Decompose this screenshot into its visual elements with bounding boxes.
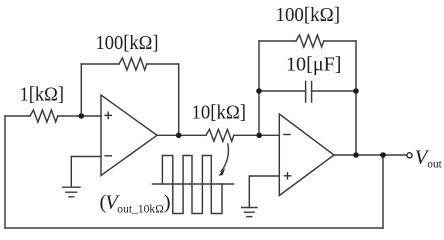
resistor R3 10[kOhm] (206, 129, 234, 141)
wire R3 to U2 minus (234, 134, 279, 136)
capacitor C1 plates (306, 82, 312, 103)
svg-text:10[μF]: 10[μF] (286, 54, 342, 76)
wire feedback top-left right segment (147, 63, 179, 65)
wire U2 plus input to ground (249, 176, 279, 208)
op-amp U2 minus sign (283, 134, 291, 136)
wire input segment (5, 115, 30, 117)
waveform square wave (162, 156, 222, 214)
wire feedback top-left left segment (81, 63, 119, 65)
wire capacitor left lead (259, 90, 306, 92)
op-amp U1 triangle (101, 95, 157, 176)
node F junction dot output 1 (353, 152, 359, 158)
resistor R2 100[kOhm] left feedback (119, 58, 147, 70)
waveform baseline (152, 183, 233, 185)
op-amp U2 plus sign (284, 172, 292, 180)
wire U2 output to terminal (334, 154, 407, 156)
node E junction dot cap right (353, 88, 359, 94)
svg-text:1[kΩ]: 1[kΩ] (20, 83, 65, 105)
wire feedback up from + node (80, 64, 82, 116)
wire feedback top-right right segment (324, 40, 356, 42)
node G junction dot output 2 (380, 152, 386, 158)
svg-text:): ) (164, 192, 171, 214)
wire R1 to opamp + (58, 115, 101, 117)
svg-text:100[kΩ]: 100[kΩ] (276, 4, 341, 26)
wire U1 output to R3 (157, 134, 206, 136)
wire output node down to bottom (382, 155, 384, 228)
wire bottom feedback (5, 227, 383, 229)
op-amp U1 plus sign (104, 112, 112, 120)
resistor R4 100[kOhm] right feedback (296, 35, 324, 47)
wire right feedback down (355, 41, 357, 155)
wire U1 minus input to ground (71, 157, 101, 188)
node C junction dot at U2 minus input (256, 133, 262, 139)
node D junction dot cap left (256, 88, 262, 94)
wire left border (4, 116, 6, 228)
svg-text:10[kΩ]: 10[kΩ] (192, 102, 247, 124)
node B junction dot at U1 output (176, 133, 182, 139)
terminal Vout open circle (407, 153, 412, 158)
wire feedback top-right left segment (259, 40, 296, 42)
svg-text:out_10kΩ: out_10kΩ (117, 204, 164, 216)
ground right (242, 208, 257, 217)
resistor R1 1[kOhm] (30, 110, 58, 122)
ground left (63, 187, 80, 197)
arrowhead (218, 168, 225, 176)
op-amp U1 minus sign (104, 155, 112, 157)
op-amp U2 triangle (279, 114, 334, 196)
svg-text:out: out (427, 157, 442, 171)
svg-text:100[kΩ]: 100[kΩ] (96, 32, 159, 54)
arrow from R3 to waveform (221, 144, 228, 172)
node A junction dot at U1 + input (79, 113, 85, 119)
wire U2 minus node up (258, 41, 260, 135)
wire feedback down to output node (178, 64, 180, 135)
wire capacitor right lead (312, 90, 356, 92)
